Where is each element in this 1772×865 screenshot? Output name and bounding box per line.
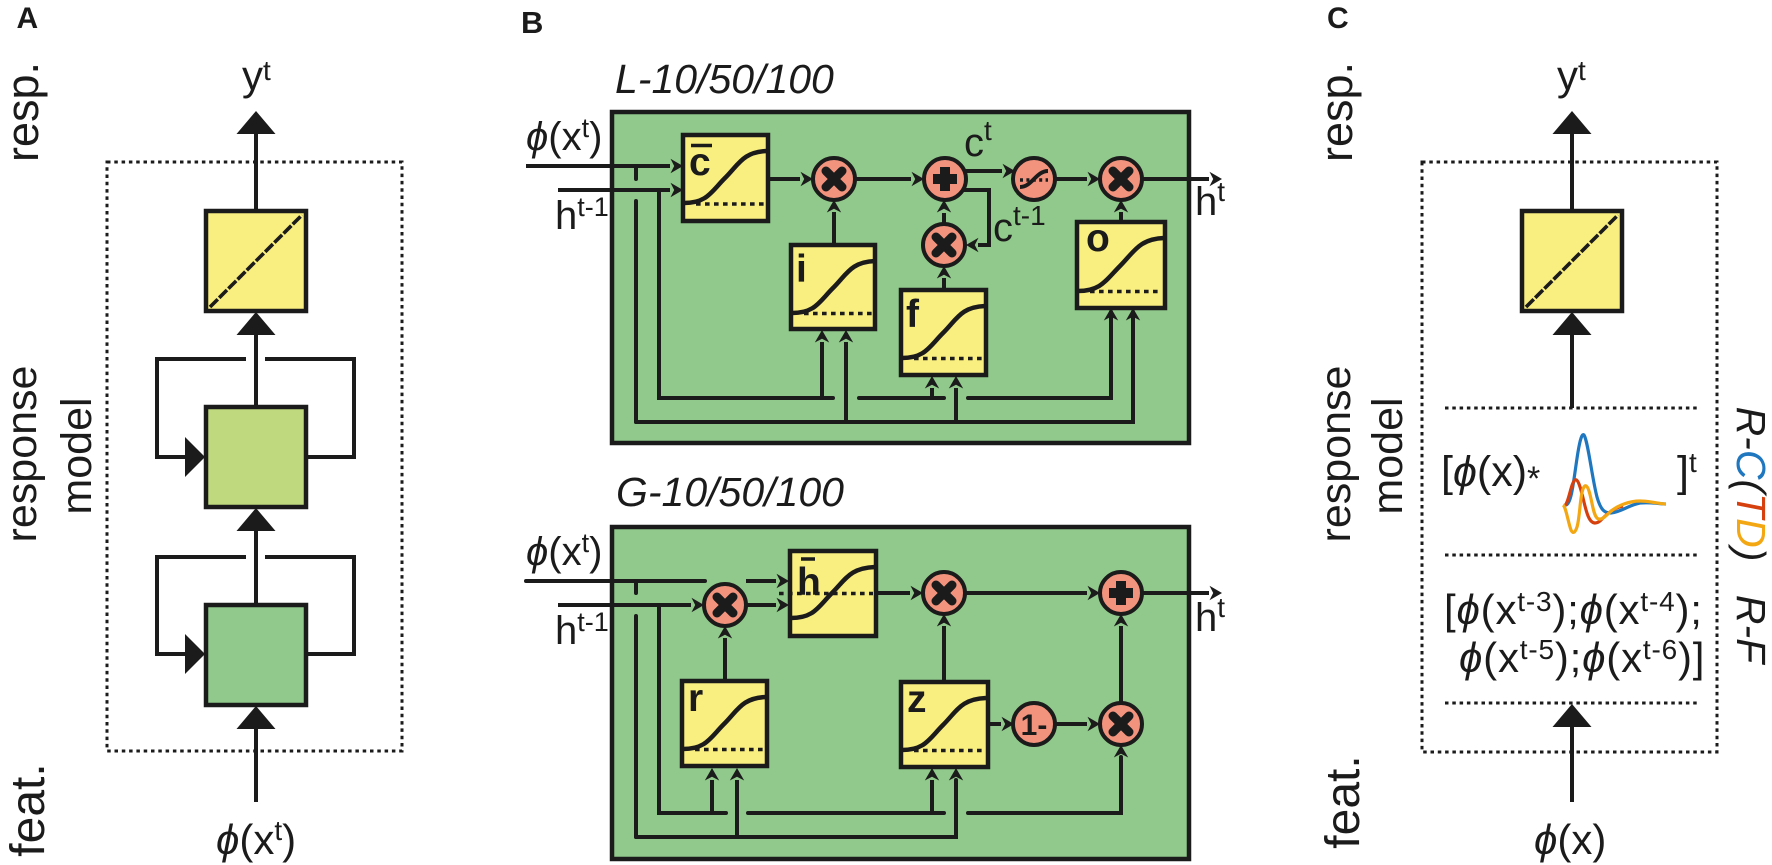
svg-text:resp.: resp. bbox=[1311, 62, 1362, 162]
x feedback rail bbox=[636, 312, 1133, 422]
wire yellow to lightgreen (A) bbox=[254, 330, 258, 407]
svg-text:feat.: feat. bbox=[1317, 755, 1370, 848]
arrowhead LSTM output bbox=[1210, 172, 1223, 186]
arrowhead h into mulg1 bbox=[692, 598, 705, 612]
LSTM output wire h^t bbox=[1142, 177, 1209, 181]
r box left riser from h rail bbox=[710, 780, 714, 813]
arrowhead into add bbox=[912, 172, 925, 186]
add node addg bbox=[1100, 572, 1142, 614]
arrowhead h into cbar bbox=[671, 183, 684, 197]
wire one-minus to mulg3 bbox=[1055, 722, 1087, 726]
svg-text:R-C(TD): R-C(TD) bbox=[1728, 407, 1772, 562]
svg-text:model: model bbox=[53, 397, 101, 514]
multiply node mulg2 bbox=[923, 572, 965, 614]
dotted separator 3 (C) bbox=[1445, 702, 1699, 705]
svg-text:A: A bbox=[17, 2, 39, 35]
svg-text:L-10/50/100: L-10/50/100 bbox=[615, 56, 834, 102]
cell state loop wire bbox=[962, 190, 989, 245]
arrowhead x rail into z box bbox=[949, 768, 963, 781]
one-minus node bbox=[1013, 703, 1055, 745]
svg-text:response: response bbox=[0, 366, 46, 543]
diagonal of linear unit (A) bbox=[210, 215, 302, 307]
GRU x feedback rail bbox=[636, 780, 956, 837]
svg-text:B: B bbox=[521, 5, 543, 40]
lightgreen RNN box (A) bbox=[206, 407, 306, 507]
input wire (C) bbox=[1570, 725, 1574, 802]
output arrowhead (A) bbox=[237, 111, 276, 134]
wire i box to mul1 bbox=[832, 212, 836, 245]
svg-text:i: i bbox=[796, 248, 807, 291]
arrowhead mulg1 into hbar bbox=[777, 598, 790, 612]
input wire (A) bbox=[254, 725, 258, 802]
output arrowhead (C) bbox=[1553, 111, 1592, 134]
o gate box bbox=[1077, 217, 1165, 308]
arrowhead into mul1 bottom bbox=[827, 200, 841, 213]
GRU x wire to hbar bbox=[746, 579, 776, 583]
arrowhead into mulg2 bbox=[911, 586, 924, 600]
svg-text:resp.: resp. bbox=[0, 62, 48, 162]
arrowhead into yellow box (A) bbox=[237, 312, 276, 335]
loop arrowhead upper (A) bbox=[185, 437, 205, 477]
arrowhead x riser into r box bbox=[730, 768, 744, 781]
output wire (A) bbox=[254, 133, 258, 211]
arrowhead mulg3 to addg bbox=[1114, 614, 1128, 627]
multiply node mulg1 bbox=[704, 584, 746, 626]
svg-text:1-: 1- bbox=[1021, 709, 1048, 742]
add node bbox=[924, 158, 966, 200]
r box right riser from x rail bbox=[735, 780, 739, 837]
svg-text:ϕ(xt): ϕ(xt) bbox=[216, 815, 296, 863]
wire lightgreen to green (A) bbox=[254, 528, 258, 605]
svg-text:o: o bbox=[1086, 217, 1110, 260]
wire mulg3 to addg bbox=[1119, 626, 1123, 703]
wire r box to mulg1 bbox=[723, 638, 727, 681]
arrowhead h rail into mulg3 bbox=[1114, 745, 1128, 758]
dotted separator 2 (C) bbox=[1445, 554, 1699, 557]
svg-text:R-F: R-F bbox=[1728, 595, 1772, 665]
arrowhead GRU output bbox=[1210, 586, 1223, 600]
arrowhead r to mulg1 bbox=[718, 626, 732, 639]
arrowhead into sigma circle bbox=[1003, 164, 1016, 178]
wire mulg2 to addg bbox=[965, 591, 1087, 595]
arrowhead f to mul2 bbox=[937, 266, 951, 279]
GRU output wire bbox=[1142, 591, 1209, 595]
wire z to one-minus bbox=[988, 722, 1001, 726]
linear unit yellow box (A) bbox=[206, 211, 306, 311]
GRU x input wire bbox=[526, 579, 705, 583]
wire mul1 to add bbox=[855, 177, 911, 181]
loop arrowhead lower (A) bbox=[185, 634, 205, 674]
f gate box bbox=[901, 290, 986, 375]
recurrent loop lower (A) bbox=[157, 557, 354, 654]
svg-text:ϕ(x): ϕ(x) bbox=[1534, 816, 1606, 863]
svg-text:response: response bbox=[1312, 366, 1360, 543]
green RNN box (A) bbox=[206, 605, 306, 705]
svg-text:ϕ(xt): ϕ(xt) bbox=[526, 528, 602, 574]
svg-text:z: z bbox=[907, 678, 927, 721]
recurrent loop upper (A) bbox=[157, 359, 354, 457]
multiply node mul3 bbox=[1100, 158, 1142, 200]
svg-text:c: c bbox=[689, 141, 711, 184]
dotted separator 1 (C) bbox=[1445, 407, 1699, 410]
svg-text:C: C bbox=[1327, 2, 1349, 35]
arrowhead into yellow box (C) bbox=[1553, 312, 1592, 335]
arrowhead x rail into o box bbox=[1126, 308, 1140, 321]
GRU x branch stub bbox=[634, 581, 638, 837]
i gate bottom arrows bbox=[822, 342, 846, 422]
hbar gate box bbox=[779, 551, 876, 636]
arrowhead into mul1 bbox=[801, 172, 814, 186]
wire z box to mulg2 bbox=[942, 626, 946, 682]
wire mul2 to add bbox=[942, 213, 946, 224]
wire o box to mul3 bbox=[1119, 212, 1123, 222]
wire into yellow box (C) bbox=[1570, 333, 1574, 408]
svg-text:ϕ(xt): ϕ(xt) bbox=[526, 113, 602, 159]
arrowhead h riser into r box bbox=[705, 768, 719, 781]
diagonal of linear unit (C) bbox=[1526, 215, 1618, 307]
temporal filter red curve bbox=[1564, 480, 1623, 523]
r gate box bbox=[682, 677, 767, 766]
svg-text:h: h bbox=[797, 561, 821, 604]
dotted model box (C) bbox=[1422, 162, 1717, 752]
multiply node mul1 bbox=[813, 158, 855, 200]
GRU h branch rail bbox=[659, 605, 1121, 813]
svg-text:r: r bbox=[688, 677, 703, 720]
multiply node mulg3 bbox=[1100, 703, 1142, 745]
arrowhead h riser into z box bbox=[925, 768, 939, 781]
LSTM x input wire bbox=[526, 164, 670, 168]
arrowhead o to mul3 bbox=[1114, 200, 1128, 213]
cbar gate box bbox=[683, 135, 768, 221]
z gate box bbox=[901, 678, 988, 767]
output wire (C) bbox=[1570, 133, 1574, 211]
wire sigma to mul3 bbox=[1055, 177, 1087, 181]
input arrowhead (C) bbox=[1553, 704, 1592, 727]
LSTM cell green box bbox=[612, 112, 1189, 443]
x branch stub bbox=[634, 166, 638, 422]
GRU h input wire bbox=[558, 603, 691, 607]
wire mulg1 to hbar bbox=[746, 603, 776, 607]
temporal filter blue curve bbox=[1566, 435, 1666, 513]
svg-text:f: f bbox=[906, 293, 920, 336]
wire f box to mul2 bbox=[942, 278, 946, 290]
arrowhead into addg bbox=[1088, 586, 1101, 600]
svg-text:model: model bbox=[1364, 397, 1412, 514]
z box left riser from h rail bbox=[930, 780, 934, 813]
multiply node mul2 bbox=[923, 224, 965, 266]
temporal filter orange curve bbox=[1563, 486, 1666, 533]
svg-text:G-10/50/100: G-10/50/100 bbox=[616, 469, 844, 515]
arrowhead into mulg3 bbox=[1088, 717, 1101, 731]
dotted model box (A) bbox=[107, 162, 402, 751]
arrowhead x into hbar bbox=[777, 574, 790, 588]
wire add to sigma circle bbox=[963, 169, 1002, 173]
wire hbar to mulg2 bbox=[876, 591, 910, 595]
wire cbar to mul1 bbox=[768, 177, 800, 181]
LSTM h input wire bbox=[558, 188, 670, 192]
arrowhead into one-minus bbox=[1002, 717, 1015, 731]
arrowhead x into cbar bbox=[671, 159, 684, 173]
arrowhead z to mulg2 bbox=[937, 614, 951, 627]
sigma nonlinearity circle bbox=[1013, 158, 1055, 200]
f gate bottom arrows bbox=[932, 388, 956, 422]
h branch rail bbox=[659, 190, 1111, 398]
linear unit yellow box (C) bbox=[1522, 211, 1622, 311]
arrowhead into lightgreen box (A) bbox=[237, 508, 276, 531]
svg-text:[ϕ(x)*: [ϕ(x)* bbox=[1441, 448, 1540, 498]
arrowhead into green box (A) bbox=[237, 706, 276, 729]
arrowhead loop into mul2 bbox=[966, 238, 979, 252]
GRU cell green box bbox=[612, 527, 1189, 859]
arrowhead h rail into o box bbox=[1104, 308, 1118, 321]
svg-text:feat.: feat. bbox=[2, 763, 55, 856]
i gate box bbox=[791, 245, 875, 329]
arrowhead mul2 to add bbox=[937, 200, 951, 213]
arrowhead into mul3 bbox=[1088, 172, 1101, 186]
